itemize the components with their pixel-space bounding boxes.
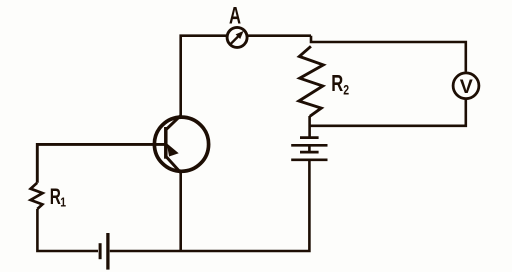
- wire: base wire and left drop to R1: [37, 144, 166, 182]
- svg-text:2: 2: [343, 82, 349, 98]
- voltmeter V1: [453, 73, 479, 99]
- transistor Q1: [154, 116, 208, 173]
- wire: R2 bottom to battery: [308, 116, 311, 138]
- wire: collector riser and top wire to ammeter: [181, 36, 227, 116]
- svg-text:1: 1: [60, 196, 66, 210]
- wire: node to voltmeter top: [311, 36, 466, 72]
- wire: emitter to bottom wire: [179, 172, 182, 251]
- wire: battery B2 down and bottom wire right segment: [110, 161, 310, 251]
- resistor R2: [299, 46, 323, 116]
- wire: bottom wire left segment up to R1: [37, 209, 98, 251]
- ammeter A1: [227, 27, 247, 47]
- resistor R1: [31, 183, 43, 209]
- wire: ammeter to node at top of R2: [248, 34, 311, 37]
- svg-text:A: A: [229, 2, 241, 29]
- svg-text:R: R: [331, 71, 343, 96]
- battery B2: [291, 138, 327, 160]
- battery B1: [100, 233, 108, 270]
- wire: voltmeter bottom to battery node: [309, 99, 465, 126]
- svg-text:V: V: [460, 76, 473, 98]
